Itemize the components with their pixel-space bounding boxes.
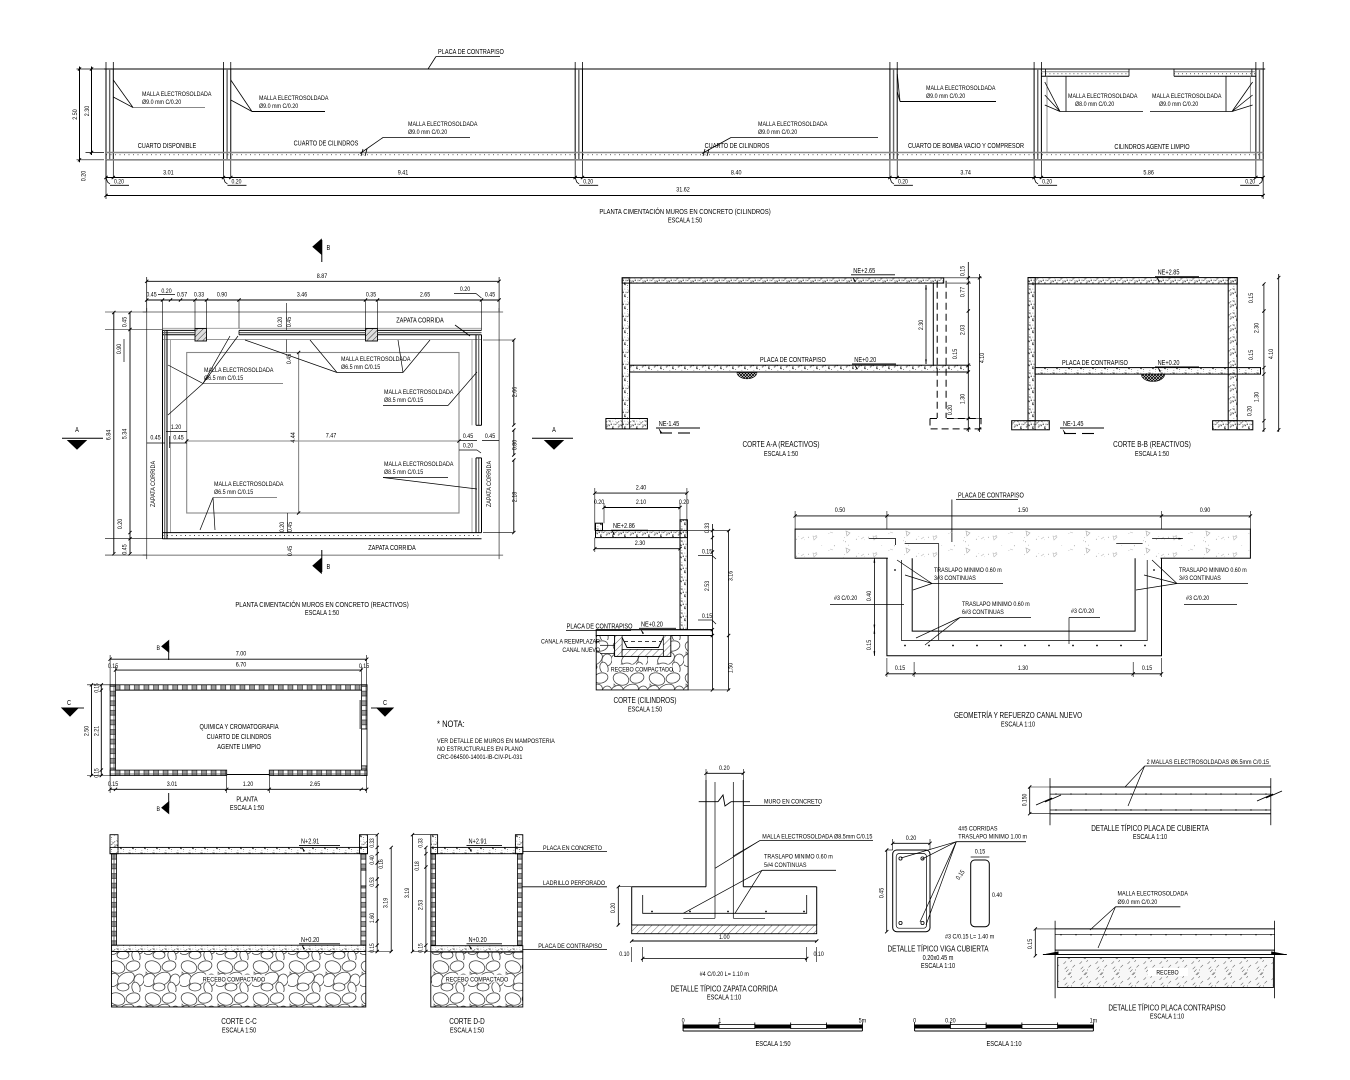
svg-text:CRC-064500-14001-IB-CIV-PL-031: CRC-064500-14001-IB-CIV-PL-031 — [437, 753, 523, 761]
svg-text:MURO EN CONCRETO: MURO EN CONCRETO — [764, 798, 822, 806]
svg-text:2.66: 2.66 — [511, 386, 519, 397]
svg-text:Ø8.5 mm C/0.15: Ø8.5 mm C/0.15 — [384, 470, 424, 477]
svg-text:B: B — [156, 646, 160, 653]
svg-text:ZAPATA CORRIDA: ZAPATA CORRIDA — [149, 460, 157, 507]
svg-text:MALLA ELECTROSOLDADA: MALLA ELECTROSOLDADA — [1152, 94, 1222, 101]
svg-text:DETALLE TÍPICO PLACA CONTRAPIS: DETALLE TÍPICO PLACA CONTRAPISO — [1108, 1003, 1226, 1013]
svg-text:0.15: 0.15 — [895, 666, 906, 673]
svg-text:NE+0.20: NE+0.20 — [854, 356, 876, 364]
svg-text:QUIMICA Y CROMATOGRAFIA: QUIMICA Y CROMATOGRAFIA — [199, 723, 279, 731]
svg-text:TRASLAPO MINIMO 0.60 m: TRASLAPO MINIMO 0.60 m — [1179, 568, 1247, 575]
svg-text:5#4 CONTINUAS: 5#4 CONTINUAS — [764, 861, 807, 869]
svg-text:2.53: 2.53 — [704, 580, 711, 591]
svg-text:RECEBO COMPACTADO: RECEBO COMPACTADO — [446, 976, 509, 984]
svg-text:PLANTA CIMENTACIÓN MUROS EN CO: PLANTA CIMENTACIÓN MUROS EN CONCRETO (CI… — [599, 206, 770, 216]
svg-text:7.47: 7.47 — [326, 432, 337, 440]
svg-text:TRASLAPO MINIMO 0.60 m: TRASLAPO MINIMO 0.60 m — [764, 853, 833, 861]
svg-text:ESCALA 1:50: ESCALA 1:50 — [628, 706, 663, 714]
svg-text:RECEBO: RECEBO — [1156, 970, 1179, 977]
svg-text:0.15: 0.15 — [359, 664, 370, 671]
svg-text:CILINDROS AGENTE LIMPIO: CILINDROS AGENTE LIMPIO — [1114, 143, 1189, 151]
svg-text:CANAL A REEMPLAZAR: CANAL A REEMPLAZAR — [541, 639, 601, 646]
svg-text:7.00: 7.00 — [236, 650, 247, 658]
svg-text:0.20: 0.20 — [1245, 179, 1255, 186]
svg-text:0.15: 0.15 — [94, 768, 101, 777]
svg-text:B: B — [327, 244, 331, 252]
svg-text:ZAPATA CORRIDA: ZAPATA CORRIDA — [396, 317, 444, 325]
svg-text:0.45: 0.45 — [485, 434, 496, 441]
svg-text:1: 1 — [718, 1017, 722, 1025]
svg-text:Ø9.0 mm C/0.20: Ø9.0 mm C/0.20 — [408, 130, 448, 137]
svg-text:MALLA ELECTROSOLDADA: MALLA ELECTROSOLDADA — [1068, 94, 1138, 101]
svg-text:ESCALA 1:50: ESCALA 1:50 — [305, 609, 340, 617]
svg-text:Ø9.0 mm C/0.20: Ø9.0 mm C/0.20 — [1118, 898, 1158, 906]
svg-text:0.40: 0.40 — [867, 590, 874, 601]
svg-text:0.33: 0.33 — [418, 838, 425, 847]
svg-text:1m: 1m — [1090, 1017, 1098, 1025]
svg-text:0.20: 0.20 — [81, 170, 88, 181]
svg-text:3.74: 3.74 — [960, 169, 971, 177]
svg-text:0.15: 0.15 — [1249, 349, 1256, 360]
svg-text:5m: 5m — [859, 1017, 867, 1025]
svg-text:0.20: 0.20 — [945, 1017, 956, 1025]
svg-text:0.15: 0.15 — [953, 348, 960, 359]
svg-text:0.15: 0.15 — [1249, 292, 1256, 303]
svg-text:MALLA ELECTROSOLDADA: MALLA ELECTROSOLDADA — [214, 482, 284, 489]
svg-text:0.35: 0.35 — [366, 292, 377, 299]
svg-text:0.45: 0.45 — [122, 544, 129, 555]
svg-text:MALLA ELECTROSOLDADA: MALLA ELECTROSOLDADA — [204, 368, 274, 375]
svg-text:2.03: 2.03 — [960, 324, 967, 335]
svg-text:0.33: 0.33 — [704, 522, 711, 533]
svg-text:ESCALA 1:50: ESCALA 1:50 — [668, 217, 703, 225]
svg-text:TRASLAPO MINIMO 0.60 m: TRASLAPO MINIMO 0.60 m — [934, 568, 1002, 575]
svg-text:4.10: 4.10 — [980, 352, 987, 363]
svg-text:2.30: 2.30 — [85, 105, 92, 116]
svg-text:AGENTE LIMPIO: AGENTE LIMPIO — [217, 743, 261, 751]
svg-text:1.00: 1.00 — [719, 933, 730, 941]
svg-text:PLANTA: PLANTA — [236, 796, 258, 804]
svg-text:Ø6.5 mm C/0.15: Ø6.5 mm C/0.15 — [204, 376, 244, 383]
svg-text:0.57: 0.57 — [177, 292, 188, 299]
svg-text:0.20: 0.20 — [583, 179, 593, 186]
svg-text:MALLA ELECTROSOLDADA Ø8.5mm C/: MALLA ELECTROSOLDADA Ø8.5mm C/0.15 — [762, 833, 873, 841]
svg-text:PLACA DE CONTRAPISO: PLACA DE CONTRAPISO — [567, 623, 633, 631]
svg-text:0.20: 0.20 — [460, 287, 471, 294]
svg-text:N+0.20: N+0.20 — [301, 936, 320, 944]
svg-text:ESCALA 1:10: ESCALA 1:10 — [707, 994, 742, 1002]
svg-text:PLACA DE CONTRAPISO: PLACA DE CONTRAPISO — [438, 48, 504, 56]
svg-text:2.50: 2.50 — [73, 109, 80, 120]
svg-text:0.20: 0.20 — [463, 443, 474, 450]
svg-text:N+0.20: N+0.20 — [469, 936, 488, 944]
svg-text:2.10: 2.10 — [636, 500, 647, 507]
svg-text:0.45: 0.45 — [485, 292, 496, 299]
svg-text:0.18: 0.18 — [415, 861, 422, 870]
svg-text:4#5 CORRIDAS: 4#5 CORRIDAS — [958, 825, 997, 833]
svg-text:0.45: 0.45 — [288, 545, 295, 556]
svg-text:4.44: 4.44 — [289, 432, 297, 443]
svg-text:2.30: 2.30 — [919, 319, 926, 330]
svg-text:ESCALA 1:50: ESCALA 1:50 — [1135, 450, 1170, 458]
svg-text:5.34: 5.34 — [121, 428, 129, 439]
svg-text:NE-1.45: NE-1.45 — [1063, 420, 1084, 428]
svg-text:0.15: 0.15 — [867, 639, 874, 650]
svg-text:0.33: 0.33 — [194, 292, 205, 299]
svg-text:#3 C/0.15 L= 1.40 m: #3 C/0.15 L= 1.40 m — [945, 933, 994, 941]
svg-text:Ø9.0 mm C/0.20: Ø9.0 mm C/0.20 — [758, 130, 798, 137]
svg-text:0.45: 0.45 — [287, 316, 294, 327]
svg-text:2.18: 2.18 — [511, 491, 519, 502]
svg-text:2.65: 2.65 — [420, 292, 431, 299]
svg-text:NE+0.20: NE+0.20 — [1158, 359, 1180, 367]
svg-text:4.10: 4.10 — [1269, 348, 1276, 359]
svg-text:GEOMETRÍA Y REFUERZO CANAL NUE: GEOMETRÍA Y REFUERZO CANAL NUEVO — [954, 710, 1082, 720]
svg-text:ESCALA 1:10: ESCALA 1:10 — [1001, 721, 1036, 729]
svg-text:0.45: 0.45 — [288, 521, 295, 532]
svg-text:0.15: 0.15 — [960, 265, 967, 276]
svg-text:0.45: 0.45 — [122, 316, 129, 327]
svg-text:0.50: 0.50 — [835, 506, 846, 514]
svg-text:CORTE A-A (REACTIVOS): CORTE A-A (REACTIVOS) — [743, 439, 820, 449]
svg-text:MALLA ELECTROSOLDADA: MALLA ELECTROSOLDADA — [758, 122, 828, 129]
svg-text:0.16: 0.16 — [378, 859, 385, 868]
svg-text:N+2.91: N+2.91 — [469, 838, 488, 846]
svg-text:0.90: 0.90 — [1200, 506, 1211, 514]
svg-text:C: C — [383, 699, 387, 707]
svg-text:6.70: 6.70 — [236, 661, 247, 669]
svg-text:0.20x0.45 m: 0.20x0.45 m — [923, 954, 954, 962]
svg-text:MALLA ELECTROSOLDADA: MALLA ELECTROSOLDADA — [259, 96, 329, 103]
svg-text:PLACA DE CONTRAPISO: PLACA DE CONTRAPISO — [958, 492, 1024, 500]
svg-text:0.45: 0.45 — [173, 435, 184, 442]
svg-text:NE+2.85: NE+2.85 — [1158, 269, 1180, 277]
svg-text:8.87: 8.87 — [317, 272, 328, 280]
svg-text:0.20: 0.20 — [679, 500, 690, 507]
svg-text:0.45: 0.45 — [146, 292, 157, 299]
svg-text:LADRILLO PERFORADO: LADRILLO PERFORADO — [543, 879, 605, 887]
svg-text:2 MALLAS ELECTROSOLDADAS Ø6.5m: 2 MALLAS ELECTROSOLDADAS Ø6.5mm C/0.15 — [1147, 758, 1270, 766]
svg-text:3.01: 3.01 — [167, 780, 178, 788]
svg-text:ESCALA 1:50: ESCALA 1:50 — [230, 804, 265, 812]
svg-text:Ø6.5 mm C/0.15: Ø6.5 mm C/0.15 — [341, 365, 381, 372]
svg-text:3.19: 3.19 — [383, 897, 390, 908]
svg-text:ESCALA 1:50: ESCALA 1:50 — [222, 1027, 257, 1035]
svg-text:0: 0 — [682, 1017, 686, 1025]
svg-text:MALLA ELECTROSOLDADA: MALLA ELECTROSOLDADA — [408, 122, 478, 129]
svg-text:2.65: 2.65 — [310, 780, 321, 788]
svg-text:MALLA ELECTROSOLDADA: MALLA ELECTROSOLDADA — [384, 390, 454, 397]
svg-text:1.30: 1.30 — [1018, 666, 1029, 673]
svg-text:0.10: 0.10 — [814, 952, 825, 959]
svg-text:0.20: 0.20 — [906, 834, 917, 842]
svg-text:#3 C/0.20: #3 C/0.20 — [834, 596, 858, 603]
svg-text:MALLA ELECTROSOLDADA: MALLA ELECTROSOLDADA — [142, 92, 212, 99]
svg-text:6.84: 6.84 — [105, 429, 113, 440]
svg-text:MALLA ELECTROSOLDADA: MALLA ELECTROSOLDADA — [1118, 890, 1189, 898]
svg-text:DETALLE TÍPICO VIGA CUBIERTA: DETALLE TÍPICO VIGA CUBIERTA — [887, 944, 988, 954]
svg-text:0.20: 0.20 — [1042, 179, 1052, 186]
svg-text:2.21: 2.21 — [94, 725, 101, 736]
svg-text:6#3 CONTINUAS: 6#3 CONTINUAS — [962, 610, 1004, 617]
svg-text:CUARTO DE CILINDROS: CUARTO DE CILINDROS — [294, 140, 359, 148]
svg-text:0.33: 0.33 — [369, 838, 376, 847]
svg-text:ESCALA 1:10: ESCALA 1:10 — [921, 962, 956, 970]
svg-text:0.20: 0.20 — [719, 764, 730, 772]
svg-text:9.41: 9.41 — [398, 169, 409, 177]
svg-text:0.40: 0.40 — [369, 855, 376, 864]
svg-text:0.15: 0.15 — [702, 549, 713, 556]
svg-text:3#3 CONTINUAS: 3#3 CONTINUAS — [934, 576, 976, 583]
svg-text:0.15: 0.15 — [702, 614, 713, 621]
svg-text:0.20: 0.20 — [118, 518, 125, 529]
svg-text:CORTE B-B (REACTIVOS): CORTE B-B (REACTIVOS) — [1113, 439, 1191, 449]
svg-text:0: 0 — [913, 1017, 917, 1025]
svg-text:3.19: 3.19 — [404, 887, 411, 898]
svg-text:Ø8.0 mm C/0.20: Ø8.0 mm C/0.20 — [1075, 102, 1115, 109]
svg-text:0.53: 0.53 — [369, 877, 376, 886]
svg-text:VER DETALLE DE MUROS EN MAMPOS: VER DETALLE DE MUROS EN MAMPOSTERIA — [437, 737, 556, 745]
svg-text:0.15: 0.15 — [108, 664, 119, 671]
svg-text:3.01: 3.01 — [163, 169, 174, 177]
svg-text:0.15: 0.15 — [1028, 938, 1035, 949]
svg-text:CUARTO DE BOMBA VACIO Y COMPRE: CUARTO DE BOMBA VACIO Y COMPRESOR — [908, 142, 1024, 150]
svg-text:CORTE D-D: CORTE D-D — [449, 1016, 484, 1026]
svg-text:PLACA DE CONTRAPISO: PLACA DE CONTRAPISO — [1062, 359, 1128, 367]
svg-text:TRASLAPO MINIMO 1.00 m: TRASLAPO MINIMO 1.00 m — [958, 833, 1027, 841]
svg-text:CORTE (CILINDROS): CORTE (CILINDROS) — [613, 695, 676, 705]
svg-text:2.30: 2.30 — [1254, 322, 1261, 333]
svg-text:PLANTA CIMENTACIÓN MUROS EN CO: PLANTA CIMENTACIÓN MUROS EN CONCRETO (RE… — [235, 599, 408, 609]
svg-text:CORTE C-C: CORTE C-C — [221, 1016, 256, 1026]
svg-text:MALLA ELECTROSOLDADA: MALLA ELECTROSOLDADA — [384, 462, 454, 469]
svg-text:1.20: 1.20 — [171, 425, 182, 432]
svg-text:3.46: 3.46 — [297, 292, 308, 299]
svg-text:0.20: 0.20 — [898, 179, 908, 186]
svg-text:2.53: 2.53 — [418, 899, 425, 910]
svg-text:#3 C/0.20: #3 C/0.20 — [1071, 609, 1095, 616]
svg-text:0.10: 0.10 — [619, 952, 630, 959]
svg-text:ESCALA 1:10: ESCALA 1:10 — [1133, 833, 1168, 841]
svg-text:#3 C/0.20: #3 C/0.20 — [1186, 596, 1210, 603]
svg-text:0.90: 0.90 — [117, 343, 124, 354]
svg-text:0.77: 0.77 — [960, 286, 967, 297]
svg-text:0.15: 0.15 — [975, 848, 986, 856]
svg-text:Ø9.0 mm C/0.20: Ø9.0 mm C/0.20 — [1159, 102, 1199, 109]
svg-text:5.86: 5.86 — [1143, 169, 1154, 177]
svg-text:1.50: 1.50 — [1018, 506, 1029, 514]
svg-text:* NOTA:: * NOTA: — [437, 718, 465, 729]
svg-text:0.40: 0.40 — [992, 893, 1003, 900]
svg-text:C: C — [67, 699, 71, 707]
svg-text:1.30: 1.30 — [960, 393, 967, 404]
svg-text:B: B — [327, 563, 331, 571]
svg-text:0.20: 0.20 — [594, 500, 605, 507]
svg-text:NE+2.65: NE+2.65 — [853, 267, 875, 275]
svg-text:0.20: 0.20 — [278, 316, 285, 327]
svg-text:1.50: 1.50 — [728, 662, 735, 673]
svg-text:2.50: 2.50 — [84, 725, 91, 736]
svg-text:Ø9.0 mm C/0.20: Ø9.0 mm C/0.20 — [142, 100, 182, 107]
svg-text:RECEBO COMPACTADO: RECEBO COMPACTADO — [203, 976, 266, 984]
svg-text:MALLA ELECTROSOLDADA: MALLA ELECTROSOLDADA — [926, 86, 996, 93]
svg-text:CUARTO DISPONIBLE: CUARTO DISPONIBLE — [138, 142, 197, 150]
svg-text:DETALLE TÍPICO PLACA DE CUBIER: DETALLE TÍPICO PLACA DE CUBIERTA — [1091, 823, 1209, 833]
svg-text:RECEBO COMPACTADO: RECEBO COMPACTADO — [611, 666, 674, 674]
svg-text:0.80: 0.80 — [512, 439, 519, 450]
svg-text:Ø9.0 mm C/0.20: Ø9.0 mm C/0.20 — [259, 104, 299, 111]
svg-text:0.20: 0.20 — [280, 521, 287, 532]
svg-text:0.20: 0.20 — [1247, 405, 1254, 416]
svg-text:ESCALA 1:50: ESCALA 1:50 — [450, 1027, 485, 1035]
svg-text:0.90: 0.90 — [217, 292, 228, 299]
svg-text:ZAPATA CORRIDA: ZAPATA CORRIDA — [485, 460, 493, 507]
svg-text:0.20: 0.20 — [114, 179, 124, 186]
svg-text:0.20: 0.20 — [231, 179, 241, 186]
svg-text:CUARTO DE CILINDROS: CUARTO DE CILINDROS — [207, 733, 272, 741]
svg-text:3.16: 3.16 — [728, 570, 735, 581]
svg-text:Ø9.0 mm C/0.20: Ø9.0 mm C/0.20 — [926, 94, 966, 101]
svg-text:TRASLAPO MINIMO 0.60 m: TRASLAPO MINIMO 0.60 m — [962, 602, 1030, 609]
svg-text:Ø6.5 mm C/0.15: Ø6.5 mm C/0.15 — [214, 490, 254, 497]
svg-text:PLACA DE CONTRAPISO: PLACA DE CONTRAPISO — [538, 942, 602, 950]
svg-text:PLACA DE CONTRAPISO: PLACA DE CONTRAPISO — [760, 356, 826, 364]
svg-text:0.45: 0.45 — [463, 434, 474, 441]
svg-text:0.15: 0.15 — [108, 782, 119, 789]
svg-text:ESCALA 1:50: ESCALA 1:50 — [764, 450, 799, 458]
svg-text:0.15: 0.15 — [1142, 666, 1153, 673]
svg-text:NE+0.20: NE+0.20 — [641, 621, 663, 629]
svg-text:0.45: 0.45 — [150, 435, 161, 442]
svg-text:0.45: 0.45 — [879, 887, 886, 898]
svg-text:Ø8.5 mm C/0.15: Ø8.5 mm C/0.15 — [384, 398, 424, 405]
svg-text:DETALLE TÍPICO ZAPATA CORRIDA: DETALLE TÍPICO ZAPATA CORRIDA — [670, 984, 777, 994]
svg-text:3#3 CONTINUAS: 3#3 CONTINUAS — [1179, 576, 1221, 583]
svg-text:NE+2.86: NE+2.86 — [613, 522, 635, 530]
svg-text:PLACA EN CONCRETO: PLACA EN CONCRETO — [543, 844, 602, 852]
svg-text:8.40: 8.40 — [731, 169, 742, 177]
svg-text:N+2.91: N+2.91 — [301, 838, 320, 846]
svg-text:ESCALA 1:10: ESCALA 1:10 — [1150, 1013, 1185, 1021]
svg-text:ZAPATA CORRIDA: ZAPATA CORRIDA — [368, 544, 416, 552]
svg-text:1.60: 1.60 — [369, 912, 376, 923]
svg-text:B: B — [156, 807, 160, 814]
svg-text:1.20: 1.20 — [243, 780, 254, 788]
svg-text:#4 C/0.20 L= 1.10 m: #4 C/0.20 L= 1.10 m — [700, 970, 749, 978]
svg-text:ESCALA 1:10: ESCALA 1:10 — [986, 1040, 1021, 1048]
svg-text:31.62: 31.62 — [676, 186, 690, 194]
svg-text:1.30: 1.30 — [1254, 391, 1261, 402]
svg-text:NE-1.45: NE-1.45 — [659, 420, 680, 428]
svg-text:2.40: 2.40 — [636, 484, 647, 492]
svg-text:NO ESTRUCTURALES EN PLANO: NO ESTRUCTURALES EN PLANO — [437, 745, 523, 753]
svg-text:0.20: 0.20 — [611, 902, 618, 913]
svg-text:ESCALA 1:50: ESCALA 1:50 — [755, 1040, 790, 1048]
svg-text:0.150: 0.150 — [1022, 794, 1029, 807]
svg-text:CANAL NUEVO: CANAL NUEVO — [562, 647, 600, 654]
svg-text:0.20: 0.20 — [948, 404, 955, 415]
svg-text:2.30: 2.30 — [635, 540, 646, 548]
